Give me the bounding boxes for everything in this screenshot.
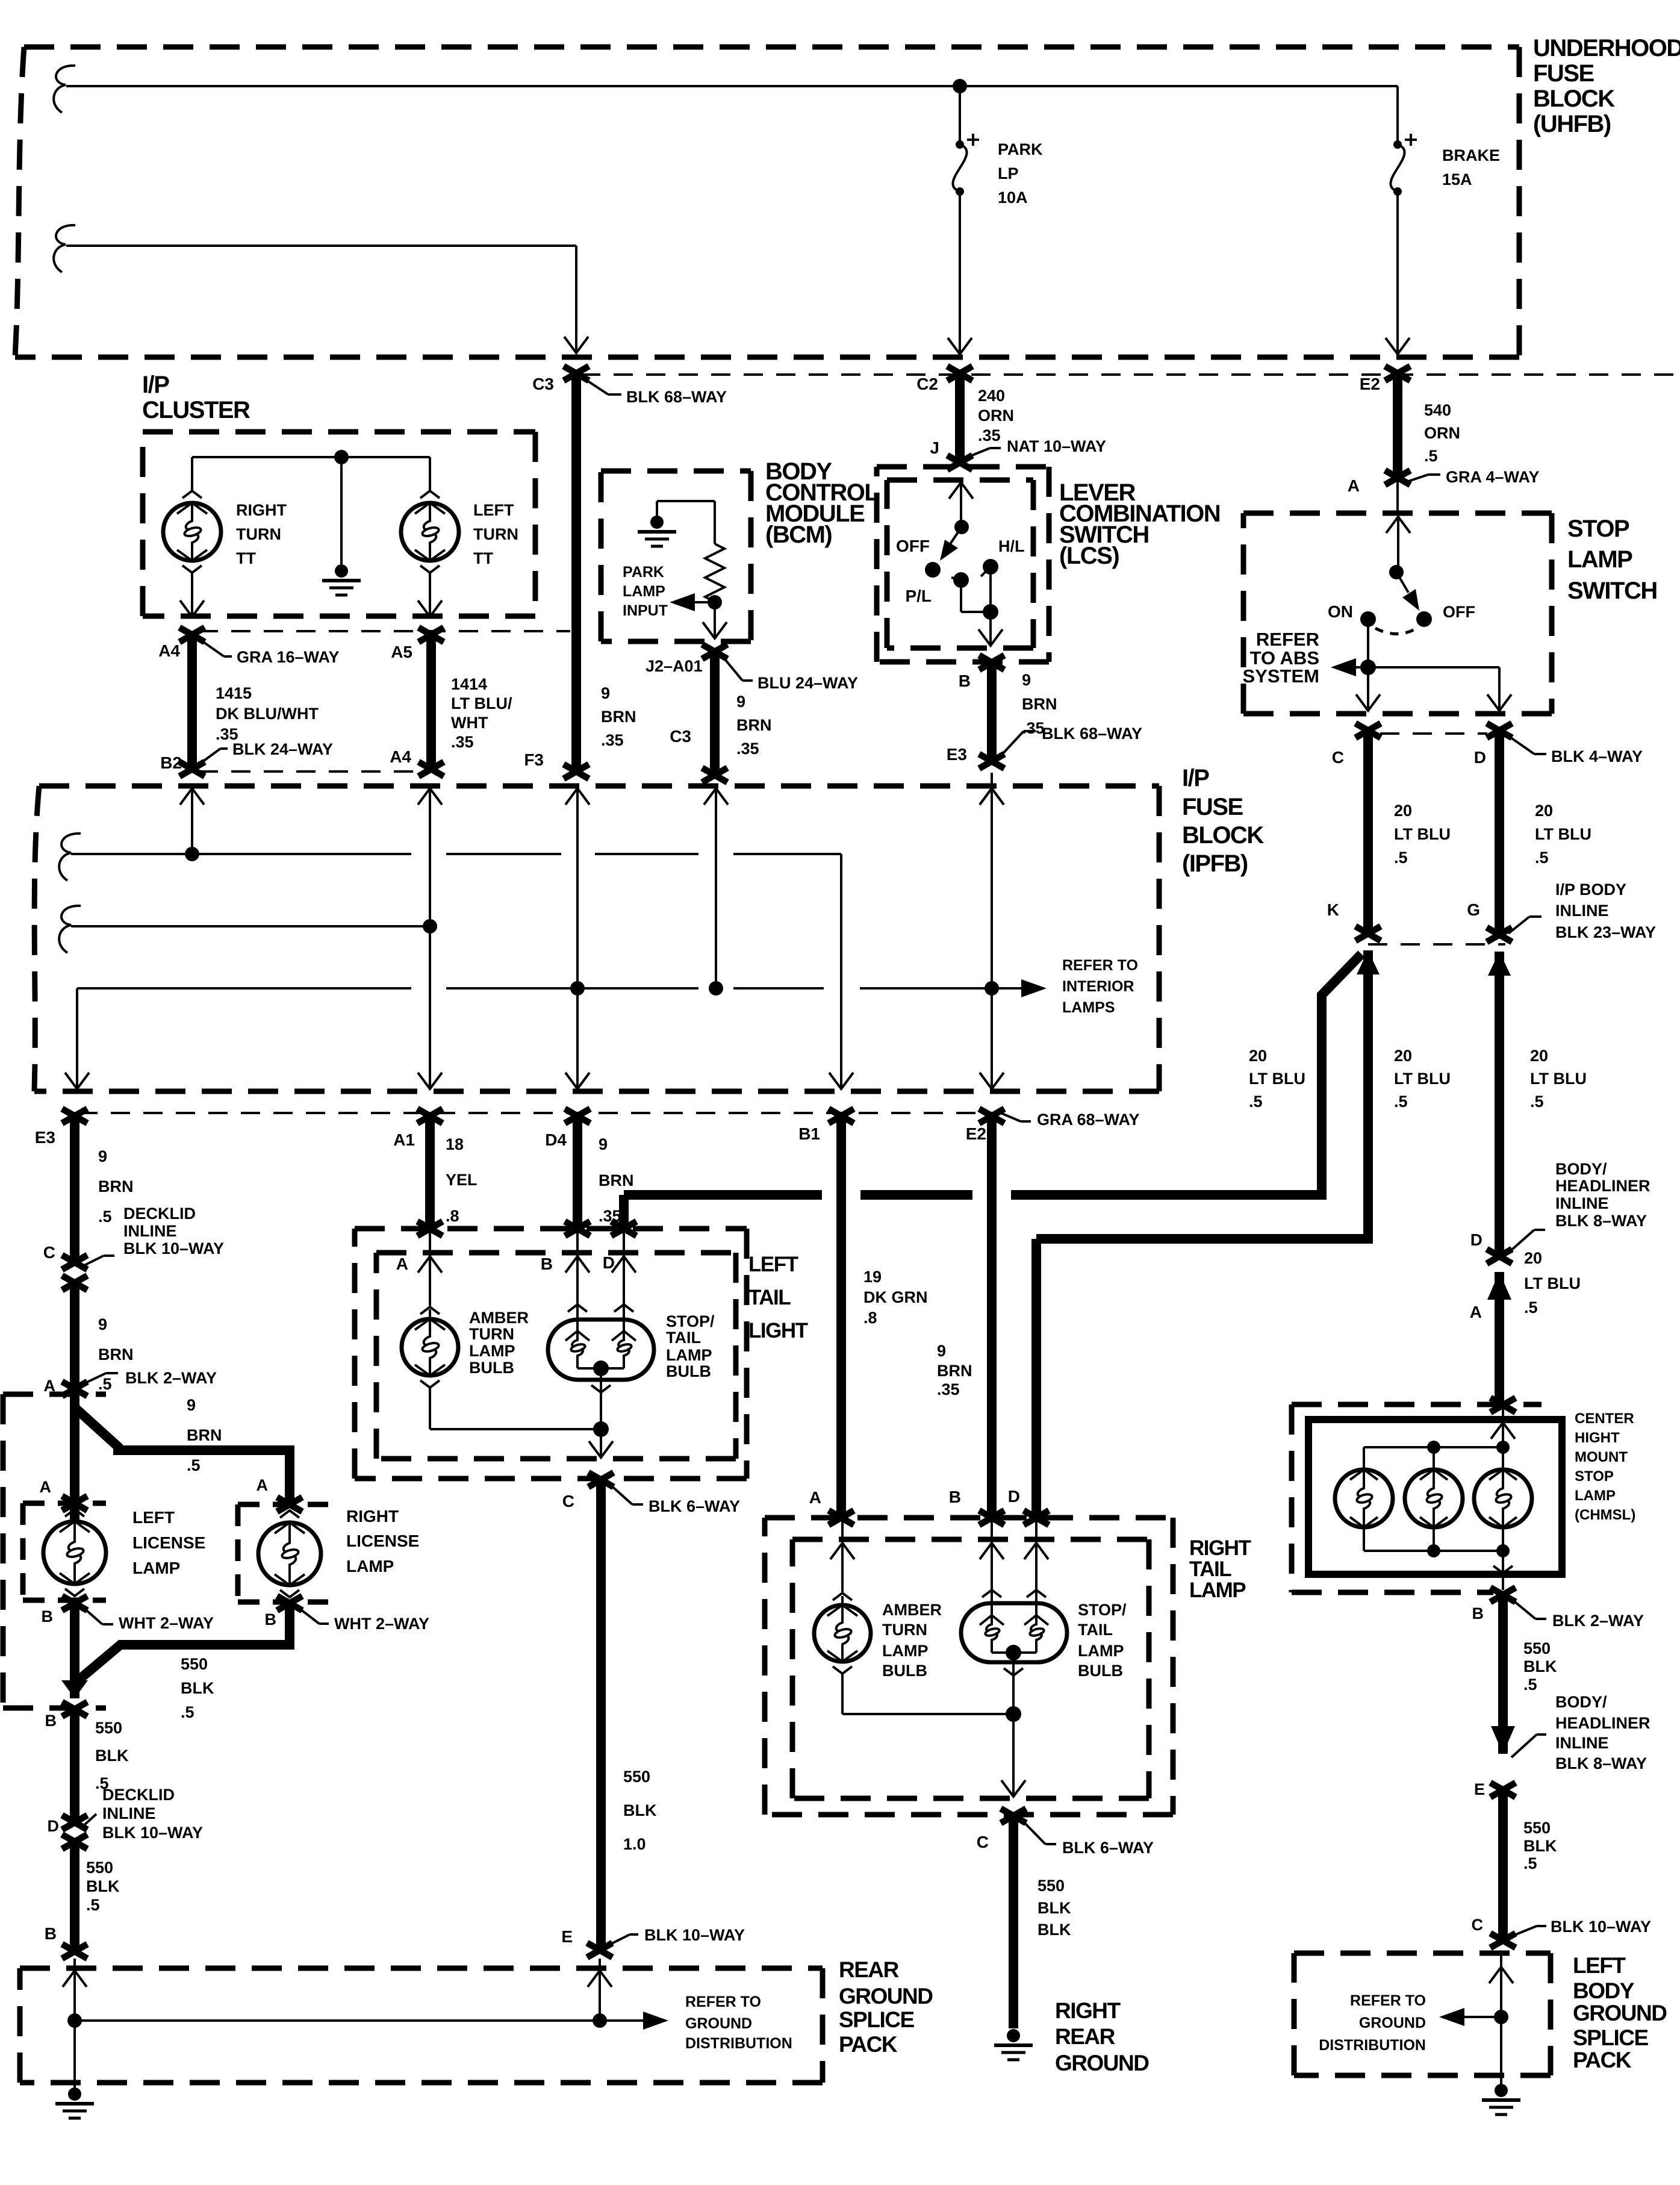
wire CHMSL output	[1493, 1551, 1513, 1590]
label I/P CLUSTER	[142, 372, 250, 423]
svg-text:.35: .35	[451, 733, 474, 751]
svg-text:E3: E3	[35, 1128, 55, 1147]
label 550 BLK .5 splice	[181, 1655, 214, 1721]
svg-text:LIGHT: LIGHT	[748, 1319, 808, 1342]
ground rear splice pack	[55, 2087, 94, 2118]
svg-text:B1: B1	[798, 1124, 820, 1143]
lamp LEFT LICENSE bulb	[43, 1509, 106, 1596]
label 550 BLK 1.0	[623, 1768, 657, 1853]
pin label J2-A01	[646, 657, 703, 675]
wire rear splice B lead	[63, 1959, 87, 2021]
wire cluster lamp bus	[192, 457, 430, 476]
pin label D right tail	[1008, 1487, 1020, 1506]
wire heavy D to G	[1495, 731, 1504, 935]
svg-text:REFER TO: REFER TO	[1062, 957, 1138, 974]
svg-text:LT BLU: LT BLU	[1535, 825, 1591, 843]
label OFF LCS	[896, 537, 930, 555]
junction dot at PARK LP fuse tap	[953, 79, 967, 93]
pin label C stop lamp switch	[1332, 748, 1344, 767]
svg-text:18: 18	[446, 1135, 464, 1153]
svg-text:LAMP: LAMP	[666, 1346, 712, 1364]
svg-text:RIGHT: RIGHT	[1189, 1536, 1251, 1560]
svg-text:K: K	[1327, 900, 1339, 919]
label LEFT LICENSE LAMP	[132, 1508, 205, 1577]
pin label B rear ground	[45, 1924, 57, 1943]
label 20 LT BLU .5 col mid	[1394, 1047, 1451, 1111]
svg-text:BULB: BULB	[1078, 1662, 1123, 1680]
svg-text:OFF: OFF	[1443, 603, 1475, 621]
svg-text:(CHMSL): (CHMSL)	[1575, 1507, 1635, 1523]
svg-text:CLUSTER: CLUSTER	[142, 397, 250, 423]
pin label B decklid	[45, 1712, 57, 1730]
connector A right tail	[829, 1510, 854, 1525]
connector A4 bottom right	[418, 762, 444, 776]
lamp STOP/TAIL LAMP BULB right oval	[961, 1603, 1067, 1662]
wire heavy right tail D drop	[1031, 1239, 1041, 1516]
svg-text:BLK 10–WAY: BLK 10–WAY	[102, 1824, 203, 1842]
label 550 BLK .5 bottom	[86, 1859, 120, 1914]
svg-text:19: 19	[863, 1268, 882, 1286]
wire ON contact down	[1367, 619, 1369, 667]
wire hook IPFB bus1	[59, 834, 81, 881]
wire CHMSL bottom bus	[1364, 1526, 1503, 1551]
svg-text:BLK: BLK	[1038, 1921, 1071, 1939]
wire left body splice to ground	[1500, 2017, 1502, 2085]
svg-text:BLK 23–WAY: BLK 23–WAY	[1555, 923, 1656, 941]
svg-text:I/P: I/P	[1182, 765, 1209, 791]
wire P/L to junction	[961, 580, 991, 612]
wire BRAKE fuse output to E2	[1386, 192, 1410, 354]
label 9 BRN .35 right of BCM wire	[736, 693, 772, 758]
wire heavy left tail C ground run	[596, 1480, 606, 1950]
svg-text:REFER TO: REFER TO	[1350, 1992, 1426, 2009]
svg-text:20: 20	[1394, 1047, 1412, 1065]
svg-text:I/P BODY: I/P BODY	[1555, 881, 1626, 899]
svg-text:540: 540	[1424, 401, 1451, 419]
svg-text:AMBER: AMBER	[469, 1309, 529, 1327]
wire heavy left tail D drop	[619, 1195, 629, 1227]
wire heavy K to right tail lamp D run	[1036, 950, 1368, 1239]
svg-text:BLK 8–WAY: BLK 8–WAY	[1555, 1212, 1647, 1230]
label GRA 68-WAY with leader	[1001, 1111, 1140, 1129]
svg-text:TT: TT	[236, 549, 256, 567]
label REAR GROUND SPLICE PACK	[839, 1957, 933, 2057]
svg-text:LAMP: LAMP	[882, 1642, 929, 1660]
connector B LCS	[979, 655, 1004, 670]
label STOP/TAIL LAMP BULB left	[666, 1312, 715, 1380]
svg-text:A4: A4	[390, 747, 411, 766]
junction dot bus2 A1	[423, 919, 437, 934]
wire IPFB column A1	[418, 788, 442, 1089]
svg-text:.5: .5	[1535, 849, 1549, 867]
connector C3 BLK 68-WAY	[564, 366, 589, 381]
svg-text:B: B	[959, 672, 971, 690]
svg-text:BLOCK: BLOCK	[1182, 822, 1264, 849]
svg-text:.35: .35	[978, 426, 1001, 444]
connector B1 IPFB	[829, 1109, 854, 1123]
svg-text:A1: A1	[393, 1130, 415, 1149]
svg-text:BRN: BRN	[1022, 695, 1057, 713]
svg-text:INLINE: INLINE	[1555, 1194, 1609, 1212]
wire cluster ground stem	[340, 457, 343, 564]
connector face dashed line cluster BLK 24-WAY	[199, 770, 434, 773]
svg-text:REAR: REAR	[839, 1957, 899, 1982]
svg-text:1.0: 1.0	[623, 1835, 646, 1853]
svg-text:.5: .5	[1249, 1092, 1263, 1111]
svg-text:(LCS): (LCS)	[1059, 543, 1119, 569]
svg-text:.5: .5	[1394, 849, 1408, 867]
wire heavy E2 to right tail B	[987, 1116, 997, 1516]
arrow right turn output	[180, 600, 204, 617]
svg-text:BLK 24–WAY: BLK 24–WAY	[232, 740, 333, 758]
ground cluster internal	[322, 564, 361, 595]
pin label B left license	[42, 1607, 54, 1626]
svg-text:HEADLINER: HEADLINER	[1555, 1714, 1650, 1732]
inline male arrow heavy up	[1487, 1272, 1511, 1405]
svg-text:WHT 2–WAY: WHT 2–WAY	[119, 1614, 214, 1632]
pin label A right license	[257, 1476, 269, 1494]
pin label B right tail	[949, 1488, 961, 1506]
wire CHMSL top bus	[1364, 1447, 1503, 1471]
connector A left license	[62, 1496, 87, 1510]
label 19 DK GRN .8	[863, 1268, 928, 1327]
connector B left license	[62, 1596, 87, 1610]
label 20 LT BLU .5 left	[1394, 802, 1451, 867]
label PARK LP 10A	[998, 140, 1043, 207]
connector C BLK 10-WAY	[1490, 1933, 1516, 1948]
label 20 LT BLU .5 right	[1535, 802, 1591, 867]
svg-text:I/P: I/P	[142, 372, 169, 398]
arrow REFER TO INTERIOR LAMPS	[1021, 979, 1047, 997]
svg-text:ON: ON	[1328, 602, 1353, 621]
label LEFT TAIL LIGHT	[748, 1253, 808, 1342]
label 9 BRN .5 upper	[98, 1147, 134, 1226]
svg-text:NAT 10–WAY: NAT 10–WAY	[1007, 437, 1106, 455]
svg-text:B: B	[265, 1610, 277, 1629]
ground RIGHT REAR GROUND	[994, 2029, 1033, 2060]
label BLK 6-WAY left with leader	[609, 1484, 740, 1515]
svg-text:BLK: BLK	[95, 1747, 129, 1765]
svg-text:.35: .35	[601, 731, 624, 749]
svg-text:BRAKE: BRAKE	[1442, 146, 1500, 164]
label 240 ORN .35	[978, 387, 1014, 444]
svg-text:TAIL: TAIL	[666, 1329, 701, 1347]
svg-text:D: D	[48, 1817, 60, 1835]
svg-text:TAIL: TAIL	[748, 1286, 791, 1309]
svg-text:.5: .5	[86, 1896, 100, 1914]
svg-text:9: 9	[98, 1315, 107, 1333]
svg-text:.5: .5	[181, 1703, 194, 1721]
junction dot rear splice left	[67, 2013, 82, 2028]
contact dot P/L	[951, 572, 969, 588]
wire heavy C3 to F3	[571, 373, 581, 773]
svg-text:BLK 68–WAY: BLK 68–WAY	[626, 388, 727, 406]
label 20 LT BLU .5 to CHMSL	[1524, 1249, 1581, 1317]
svg-text:LEFT: LEFT	[1573, 1953, 1626, 1978]
svg-text:C: C	[1472, 1916, 1484, 1934]
wire heavy E to C	[1498, 1790, 1508, 1939]
svg-text:B: B	[949, 1488, 961, 1506]
svg-text:BODY/: BODY/	[1555, 1693, 1607, 1711]
connector D stop lamp switch	[1487, 723, 1512, 738]
svg-text:LICENSE: LICENSE	[132, 1533, 205, 1552]
arrow REFER TO ABS SYSTEM	[1331, 658, 1368, 676]
connector D body headliner inline	[1487, 1249, 1512, 1264]
svg-text:INLINE: INLINE	[1555, 1734, 1609, 1752]
svg-text:LT BLU/: LT BLU/	[451, 694, 512, 712]
box LEFT TAIL LIGHT inner dashed	[376, 1253, 736, 1459]
wire right tail A lead	[830, 1518, 854, 1592]
lamp CHMSL bulb 1	[1335, 1470, 1393, 1527]
svg-text:BLK: BLK	[86, 1877, 120, 1895]
svg-text:SPLICE: SPLICE	[839, 2007, 914, 2032]
pin label D stop lamp switch	[1474, 748, 1486, 767]
pin label A4 top left	[158, 641, 180, 660]
svg-text:A: A	[396, 1255, 408, 1273]
fuse BRAKE 15A	[1390, 134, 1417, 196]
svg-text:REAR: REAR	[1055, 2024, 1115, 2049]
svg-text:.8: .8	[446, 1207, 459, 1225]
svg-text:INPUT: INPUT	[623, 602, 668, 619]
svg-text:STOP/: STOP/	[666, 1312, 715, 1330]
svg-text:LP: LP	[998, 164, 1019, 182]
svg-text:LEFT: LEFT	[748, 1253, 798, 1276]
wire IPFB bus3	[65, 988, 1031, 1089]
wire heavy B CHMSL down	[1491, 1595, 1515, 1754]
svg-text:B: B	[541, 1255, 553, 1273]
svg-text:FUSE: FUSE	[1182, 794, 1243, 820]
wire heavy decklid to license lamps	[70, 1283, 79, 1390]
svg-text:CENTER: CENTER	[1575, 1410, 1634, 1427]
pin label A5	[391, 643, 412, 661]
svg-text:BLK 68–WAY: BLK 68–WAY	[1042, 725, 1142, 743]
wire left tail A lead	[418, 1229, 442, 1306]
svg-text:C2: C2	[916, 375, 938, 393]
svg-text:LAMP: LAMP	[346, 1557, 394, 1576]
svg-text:550: 550	[1523, 1819, 1551, 1837]
label BODY/HEADLINER INLINE BLK 8-WAY upper with leader	[1508, 1160, 1650, 1253]
svg-text:9: 9	[599, 1135, 608, 1153]
svg-text:INLINE: INLINE	[1555, 902, 1609, 920]
box CHMSL housing solid	[1308, 1420, 1562, 1574]
svg-text:LAMP: LAMP	[1567, 546, 1632, 573]
label LEFT BODY GROUND SPLICE PACK	[1573, 1953, 1667, 2072]
wire heavy E3 down	[70, 1116, 79, 1262]
svg-text:.35: .35	[736, 740, 759, 758]
box RIGHT TAIL LAMP outer dashed	[765, 1518, 1173, 1815]
label BLK 68-WAY with leader	[585, 379, 727, 406]
svg-text:STOP: STOP	[1575, 1468, 1614, 1485]
svg-text:TAIL: TAIL	[1189, 1557, 1231, 1581]
wire heavy 1414 LT BLU/WHT	[426, 635, 436, 773]
junction dot LCS output	[983, 604, 998, 620]
label 550 BLK BLK	[1038, 1877, 1071, 1939]
svg-text:D: D	[1474, 748, 1486, 767]
label 550 BLK .5 to decklid	[95, 1719, 129, 1792]
pin label B CHMSL	[1472, 1604, 1484, 1622]
wire heavy to rear ground splice	[70, 1842, 79, 1951]
label 20 LT BLU .5 col right	[1530, 1047, 1587, 1111]
lamp RIGHT LICENSE bulb	[258, 1510, 321, 1597]
wire IPFB column BCM	[704, 788, 728, 988]
label BLK 6-WAY right with leader	[1022, 1820, 1154, 1857]
label LEFT TURN TT	[473, 501, 518, 567]
label P/L	[905, 587, 932, 605]
svg-text:LEFT: LEFT	[473, 501, 514, 519]
connector J NAT 10-WAY	[947, 455, 972, 470]
svg-text:UNDERHOOD: UNDERHOOD	[1533, 35, 1680, 61]
connector B right license	[277, 1596, 302, 1610]
pin label A right tail	[809, 1488, 821, 1507]
svg-text:BLK 10–WAY: BLK 10–WAY	[644, 1926, 745, 1944]
svg-text:B: B	[42, 1607, 54, 1626]
arrow E3 into IPFB	[980, 773, 1004, 805]
connector B2 BLK 24-WAY	[179, 762, 205, 776]
wire BCM internal top	[657, 501, 715, 544]
pin label B left tail	[541, 1255, 553, 1273]
svg-text:9: 9	[736, 693, 745, 711]
svg-text:10A: 10A	[998, 189, 1028, 207]
svg-text:9: 9	[98, 1147, 107, 1165]
label 18 YEL .8	[446, 1135, 478, 1225]
switch arc dashed	[1375, 628, 1417, 634]
svg-text:LAMPS: LAMPS	[1062, 999, 1115, 1016]
junction dot left body splice	[1494, 2010, 1508, 2024]
svg-text:240: 240	[978, 387, 1005, 405]
pin label C left tail	[562, 1492, 574, 1510]
wire heavy C to K	[1363, 731, 1373, 934]
wire IPFB column D4	[565, 788, 590, 1089]
lamp RIGHT TURN TT bulb	[163, 476, 221, 617]
svg-text:A: A	[809, 1488, 821, 1507]
svg-text:C: C	[43, 1243, 55, 1262]
label BLK 10-WAY rear with leader	[608, 1926, 745, 1945]
svg-text:E: E	[1474, 1780, 1485, 1798]
svg-text:INTERIOR: INTERIOR	[1062, 978, 1134, 995]
svg-text:20: 20	[1524, 1249, 1542, 1267]
svg-text:.5: .5	[98, 1375, 112, 1393]
connector J2-A01 BLU 24-WAY	[702, 644, 727, 659]
wire heavy license lamps return	[61, 1603, 290, 1698]
label BODY CONTROL MODULE (BCM)	[765, 458, 879, 548]
label 9 BRN .35 E2	[937, 1342, 972, 1398]
svg-text:B: B	[45, 1924, 57, 1943]
wire heavy D4 to left tail B	[573, 1116, 582, 1227]
connector A right license	[277, 1497, 302, 1512]
contact dot OFF LCS	[925, 562, 941, 578]
connector A left tail	[417, 1221, 443, 1236]
connector K I/P body inline	[1355, 926, 1381, 941]
svg-text:BLK 2–WAY: BLK 2–WAY	[125, 1369, 217, 1387]
junction dot bus3 BCM	[709, 981, 723, 996]
svg-text:550: 550	[86, 1859, 113, 1877]
svg-text:REFER TO: REFER TO	[685, 1993, 761, 2010]
label BLK 68-WAY lower with leader	[1001, 725, 1142, 756]
svg-text:BULB: BULB	[469, 1359, 514, 1377]
svg-text:BULB: BULB	[882, 1662, 927, 1680]
label BLK 2-WAY with leader	[83, 1369, 217, 1387]
svg-text:A: A	[257, 1476, 269, 1494]
label BLK 2-WAY CHMSL with leader	[1511, 1599, 1644, 1630]
label STOP LAMP SWITCH	[1567, 516, 1657, 604]
label 9 BRN .5 branch	[187, 1396, 222, 1474]
svg-text:BRN: BRN	[98, 1345, 134, 1364]
junction dot CHMSL top right	[1496, 1441, 1510, 1454]
svg-text:.35: .35	[937, 1380, 960, 1398]
svg-text:DK BLU/WHT: DK BLU/WHT	[216, 705, 319, 723]
pin label F3	[524, 750, 544, 769]
connector C2 NAT 10-WAY	[947, 366, 972, 381]
svg-text:PARK: PARK	[623, 564, 664, 581]
svg-text:TURN: TURN	[473, 525, 518, 543]
wire heavy B1 to right tail A	[836, 1116, 846, 1516]
svg-text:.8: .8	[863, 1309, 877, 1327]
svg-text:INLINE: INLINE	[102, 1804, 156, 1822]
label RIGHT REAR GROUND	[1055, 1998, 1149, 2075]
box CHMSL outer dashed open	[1292, 1404, 1542, 1592]
inline male arrow G	[1488, 952, 1511, 976]
wire PARK fuse output to C2	[948, 192, 972, 354]
pin label B right license	[265, 1610, 277, 1629]
wire switch output D	[1368, 667, 1511, 711]
svg-text:BRN: BRN	[736, 716, 772, 734]
label RIGHT LICENSE LAMP	[346, 1507, 419, 1576]
svg-text:1415: 1415	[216, 684, 252, 702]
svg-text:TURN: TURN	[469, 1325, 514, 1343]
wire hook continuation lower-left	[54, 225, 75, 272]
label REFER TO ABS SYSTEM	[1243, 629, 1319, 687]
svg-text:BLOCK: BLOCK	[1533, 86, 1615, 112]
label BLK 10-WAY bottom right with leader	[1511, 1918, 1651, 1936]
svg-text:20: 20	[1249, 1047, 1267, 1065]
svg-text:BLU 24–WAY: BLU 24–WAY	[758, 674, 858, 692]
svg-text:BLK 10–WAY: BLK 10–WAY	[123, 1239, 224, 1258]
svg-text:GRA 4–WAY: GRA 4–WAY	[1446, 468, 1540, 486]
pin label D body headliner	[1470, 1230, 1482, 1249]
svg-text:.35: .35	[1022, 719, 1045, 737]
svg-text:20: 20	[1535, 802, 1553, 820]
label DECKLID INLINE BLK 10-WAY lower with leader	[83, 1786, 203, 1842]
contact dot H/L	[981, 559, 998, 576]
svg-text:20: 20	[1530, 1047, 1548, 1065]
pin label C right tail	[977, 1833, 989, 1851]
wire heavy license splice	[75, 1389, 290, 1521]
wire LCS output	[978, 612, 1003, 646]
svg-text:SYSTEM: SYSTEM	[1243, 665, 1319, 687]
label H/L	[998, 537, 1025, 555]
pin label A license splice	[44, 1377, 56, 1395]
connector B CHMSL	[1490, 1588, 1516, 1602]
wire IPFB column E2	[980, 788, 1004, 1089]
svg-text:TT: TT	[473, 549, 493, 567]
svg-text:LT BLU: LT BLU	[1394, 1070, 1451, 1088]
label BRAKE 15A	[1442, 146, 1500, 189]
svg-text:BRN: BRN	[937, 1362, 972, 1380]
connector A CHMSL	[1490, 1398, 1516, 1412]
label 20 LT BLU .5 col left	[1249, 1047, 1305, 1111]
junction dot rear splice right	[593, 2013, 607, 2028]
svg-text:BULB: BULB	[666, 1362, 711, 1380]
box LEFT BODY GROUND SPLICE PACK dashed	[1294, 1953, 1551, 2075]
svg-text:H/L: H/L	[998, 537, 1025, 555]
pin label A1	[393, 1130, 415, 1149]
svg-text:BLK 2–WAY: BLK 2–WAY	[1552, 1612, 1644, 1630]
lamp CHMSL bulb 2	[1405, 1447, 1463, 1551]
wire BRAKE fuse drop	[1396, 86, 1399, 145]
svg-text:TURN: TURN	[236, 525, 281, 543]
svg-text:A: A	[40, 1478, 52, 1496]
label 9 BRN .35 D4	[599, 1135, 634, 1225]
